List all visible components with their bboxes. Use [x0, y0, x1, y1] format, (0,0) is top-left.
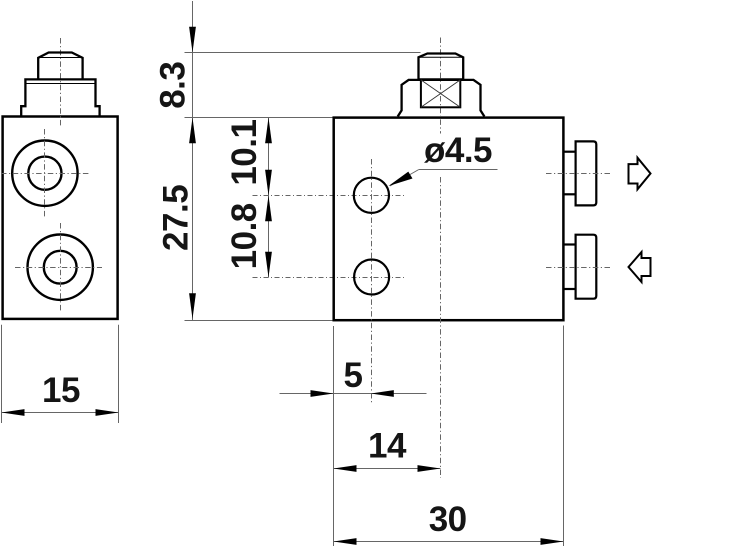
- svg-text:27.5: 27.5: [157, 185, 196, 251]
- dimension line 8.3/27.5: [192, 1, 194, 320]
- bottom extension line block right: [563, 326, 565, 547]
- svg-text:5: 5: [344, 356, 363, 395]
- port B horizontal centerline: [15, 267, 102, 269]
- left view cartridge body: [21, 79, 99, 116]
- dim 27.5 bottom arrow: [189, 293, 196, 319]
- svg-text:8.3: 8.3: [154, 62, 193, 109]
- port A outer circle: [12, 141, 77, 206]
- holes vertical centerline: [371, 159, 373, 404]
- port B outer circle: [28, 235, 93, 300]
- svg-text:10.8: 10.8: [225, 203, 264, 269]
- outlet port plug cap: [576, 141, 597, 205]
- hole H1 centerline extension: [253, 195, 406, 197]
- extension line block top: [185, 117, 334, 119]
- port A horizontal centerline: [1, 173, 89, 175]
- port B inner circle: [44, 251, 77, 284]
- dim 30 right arrow: [541, 538, 564, 545]
- cartridge valve centerline upper: [440, 38, 442, 134]
- cartridge coil X-box: [421, 80, 460, 107]
- dimension 5 line: [280, 393, 427, 395]
- cartridge valve centerline lower: [440, 177, 442, 478]
- inlet port plug cap: [576, 235, 597, 299]
- outlet port plug neck: [563, 152, 575, 195]
- left view cartridge centerline: [60, 38, 62, 127]
- cartridge hex nut (right view): [419, 54, 464, 80]
- right view valve body block: [334, 118, 564, 321]
- extension line block bottom: [185, 320, 334, 322]
- dim 27.5 top arrow: [189, 118, 196, 144]
- inlet port centerline: [546, 267, 612, 269]
- outlet port centerline: [546, 173, 612, 175]
- port A inner circle: [28, 157, 61, 190]
- dimension 15 extension line right: [118, 325, 120, 423]
- svg-text:ø4.5: ø4.5: [424, 131, 492, 170]
- cartridge body (right view): [398, 80, 485, 117]
- bottom extension line block left: [333, 326, 335, 546]
- dim 10.1 bottom arrow: [265, 170, 272, 196]
- left view cartridge hex nut: [38, 53, 82, 80]
- dimension 15 right arrow: [96, 409, 119, 416]
- leader line for hole diameter: [389, 170, 498, 187]
- dim 8.3 top arrow: [189, 27, 196, 53]
- svg-text:15: 15: [42, 371, 80, 410]
- dimension 14 line: [334, 468, 441, 470]
- dim 10.8 top arrow: [265, 196, 272, 222]
- port B vertical centerline: [60, 223, 62, 311]
- dim 5 left arrow: [311, 390, 334, 397]
- extension line nut top: [185, 52, 421, 54]
- dim 10.8 bottom arrow: [265, 252, 272, 278]
- inlet port plug neck: [563, 245, 575, 290]
- svg-text:14: 14: [368, 427, 407, 466]
- dim 30 left arrow: [334, 538, 357, 545]
- hole H2 circle: [354, 260, 389, 295]
- outlet flow arrow (right pointing): [629, 158, 651, 190]
- inlet flow arrow (left pointing): [629, 252, 651, 282]
- dim 14 left arrow: [334, 465, 357, 472]
- hole H2 centerline extension: [253, 277, 406, 279]
- dim 10.1 top arrow: [265, 118, 272, 144]
- dimension 30 line: [334, 541, 564, 543]
- hole H1 circle: [354, 178, 389, 213]
- svg-text:10.1: 10.1: [225, 120, 264, 186]
- dim 5 right arrow: [371, 390, 394, 397]
- dimension line 10.1/10.8: [268, 118, 270, 278]
- dimension 15 line: [2, 412, 119, 414]
- left view valve body block: [3, 117, 118, 319]
- port A vertical centerline: [44, 129, 46, 217]
- svg-text:30: 30: [429, 500, 467, 539]
- dim 14 right arrow: [418, 465, 441, 472]
- dimension 15 left arrow: [2, 409, 25, 416]
- dimension 15 extension line left: [1, 325, 3, 423]
